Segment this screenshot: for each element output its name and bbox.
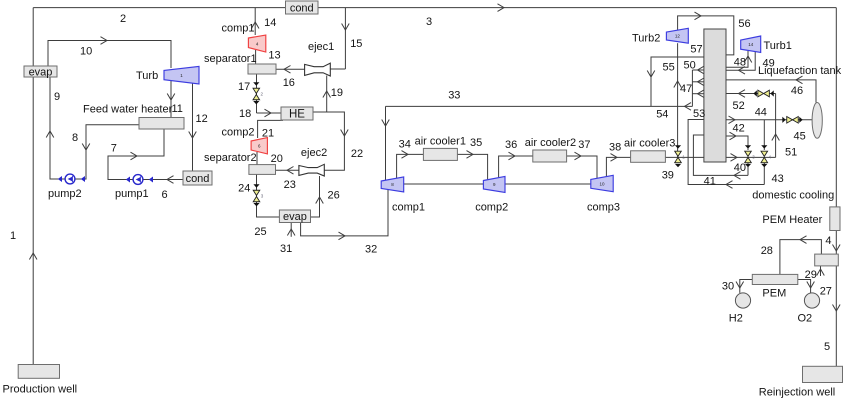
- svg-text:air cooler1: air cooler1: [415, 136, 466, 148]
- svg-text:40: 40: [734, 162, 746, 174]
- svg-text:Production well: Production well: [3, 384, 78, 396]
- svg-text:23: 23: [284, 179, 296, 191]
- svg-text:PEM Heater: PEM Heater: [762, 214, 822, 226]
- svg-text:53: 53: [693, 108, 705, 120]
- svg-text:48: 48: [734, 57, 746, 69]
- svg-text:12: 12: [675, 34, 681, 39]
- svg-text:3: 3: [426, 16, 432, 28]
- svg-text:evap: evap: [283, 211, 307, 223]
- svg-text:cond: cond: [186, 173, 210, 185]
- svg-text:HE: HE: [289, 109, 305, 121]
- svg-text:14: 14: [748, 42, 754, 47]
- svg-text:44: 44: [755, 107, 767, 119]
- svg-text:ejec1: ejec1: [308, 41, 334, 53]
- svg-text:Turb1: Turb1: [764, 40, 792, 52]
- svg-text:O2: O2: [798, 312, 813, 324]
- svg-text:16: 16: [283, 77, 295, 89]
- svg-text:29: 29: [805, 269, 817, 281]
- svg-text:comp1: comp1: [222, 23, 255, 35]
- svg-text:comp2: comp2: [222, 127, 255, 139]
- svg-text:55: 55: [663, 62, 675, 74]
- svg-text:21: 21: [262, 128, 274, 140]
- svg-text:9: 9: [54, 91, 60, 103]
- svg-text:Feed water heater: Feed water heater: [83, 104, 173, 116]
- svg-text:7: 7: [111, 143, 117, 155]
- svg-text:56: 56: [738, 18, 750, 30]
- svg-text:cond: cond: [290, 2, 314, 14]
- svg-text:pump2: pump2: [48, 188, 82, 200]
- svg-text:42: 42: [733, 122, 745, 134]
- svg-text:air cooler3: air cooler3: [624, 138, 675, 150]
- svg-text:separator2: separator2: [204, 152, 257, 164]
- svg-text:8: 8: [72, 132, 78, 144]
- svg-text:10: 10: [599, 181, 605, 186]
- svg-text:PEM: PEM: [762, 287, 786, 299]
- svg-text:39: 39: [662, 170, 674, 182]
- svg-text:27: 27: [820, 286, 832, 298]
- svg-text:45: 45: [794, 131, 806, 143]
- svg-text:2: 2: [120, 13, 126, 25]
- svg-text:10: 10: [80, 46, 92, 58]
- svg-text:25: 25: [254, 226, 266, 238]
- svg-text:air cooler2: air cooler2: [525, 137, 576, 149]
- svg-text:41: 41: [704, 175, 716, 187]
- svg-text:Liquefaction tank: Liquefaction tank: [758, 65, 842, 77]
- svg-text:comp2: comp2: [475, 202, 508, 214]
- svg-text:24: 24: [238, 182, 250, 194]
- svg-text:15: 15: [350, 38, 362, 50]
- svg-text:22: 22: [351, 148, 363, 160]
- svg-text:5: 5: [824, 341, 830, 353]
- svg-text:18: 18: [239, 108, 251, 120]
- svg-text:32: 32: [365, 244, 377, 256]
- svg-text:4: 4: [825, 235, 831, 247]
- svg-text:comp3: comp3: [587, 202, 620, 214]
- svg-text:17: 17: [238, 81, 250, 93]
- svg-text:50: 50: [684, 59, 696, 71]
- svg-text:separator1: separator1: [204, 53, 257, 65]
- svg-text:14: 14: [264, 17, 276, 29]
- svg-text:35: 35: [470, 137, 482, 149]
- svg-text:domestic cooling: domestic cooling: [752, 189, 834, 201]
- svg-text:12: 12: [196, 113, 208, 125]
- svg-text:Reinjection well: Reinjection well: [759, 387, 835, 399]
- svg-text:38: 38: [609, 142, 621, 154]
- svg-text:20: 20: [271, 153, 283, 165]
- svg-text:54: 54: [656, 109, 668, 121]
- svg-text:30: 30: [722, 281, 734, 293]
- svg-text:26: 26: [328, 189, 340, 201]
- svg-text:comp1: comp1: [392, 202, 425, 214]
- svg-text:57: 57: [690, 44, 702, 56]
- svg-text:6: 6: [162, 189, 168, 201]
- svg-text:47: 47: [680, 83, 692, 95]
- svg-text:ejec2: ejec2: [301, 147, 327, 159]
- svg-text:43: 43: [772, 173, 784, 185]
- svg-text:11: 11: [172, 103, 183, 115]
- svg-text:52: 52: [733, 100, 745, 112]
- svg-text:Turb: Turb: [136, 70, 158, 82]
- svg-text:51: 51: [785, 147, 797, 159]
- svg-text:36: 36: [505, 139, 517, 151]
- svg-text:31: 31: [280, 243, 292, 255]
- svg-text:34: 34: [399, 139, 411, 151]
- svg-text:pump1: pump1: [115, 188, 149, 200]
- svg-text:37: 37: [578, 139, 590, 151]
- svg-text:evap: evap: [29, 66, 53, 78]
- svg-text:33: 33: [448, 89, 460, 101]
- svg-text:1: 1: [10, 230, 16, 242]
- svg-text:28: 28: [761, 245, 773, 257]
- svg-text:46: 46: [791, 85, 803, 97]
- svg-text:H2: H2: [729, 312, 743, 324]
- svg-text:13: 13: [268, 50, 280, 62]
- svg-text:19: 19: [331, 87, 343, 99]
- svg-text:Turb2: Turb2: [632, 33, 660, 45]
